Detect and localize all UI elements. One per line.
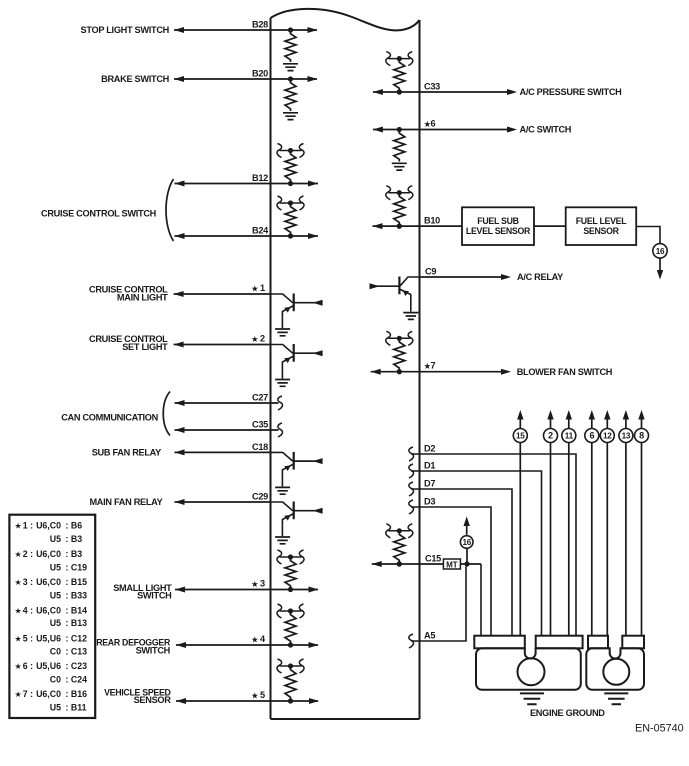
- connector circle 12: [600, 429, 614, 443]
- resistor R-B10 with break hooks: [388, 192, 410, 194]
- svg-text:16: 16: [656, 247, 665, 256]
- resistor R-B20 pull-down: [285, 81, 296, 112]
- wire *5 vehicle speed sensor: [176, 700, 318, 702]
- svg-text:FUEL LEVEL: FUEL LEVEL: [576, 216, 628, 226]
- svg-text:★: ★: [251, 284, 259, 294]
- svg-text:★: ★: [15, 578, 22, 587]
- svg-text:D1: D1: [424, 461, 435, 471]
- arrow right a/c switch: [507, 127, 517, 133]
- svg-text:: B11: : B11: [66, 702, 87, 712]
- svg-text:BLOWER FAN SWITCH: BLOWER FAN SWITCH: [517, 367, 613, 377]
- svg-text:SET LIGHT: SET LIGHT: [122, 342, 168, 352]
- svg-text:15: 15: [516, 432, 525, 441]
- svg-text:7: 7: [431, 361, 436, 371]
- wire connector 15: [519, 420, 521, 429]
- svg-text:STOP LIGHT SWITCH: STOP LIGHT SWITCH: [81, 25, 170, 35]
- svg-text:: B3: : B3: [66, 534, 83, 544]
- wire connector 8: [641, 420, 643, 429]
- svg-text:8: 8: [639, 431, 644, 441]
- MT option box: [443, 559, 460, 569]
- brace arc cruise control switch: [166, 179, 174, 241]
- svg-text:D3: D3: [424, 497, 435, 507]
- svg-text:U5: U5: [50, 534, 61, 544]
- wire MT to junction: [460, 563, 481, 565]
- svg-text:U6,C0: U6,C0: [36, 521, 61, 531]
- arrow left B10: [373, 223, 383, 229]
- svg-text:BRAKE SWITCH: BRAKE SWITCH: [101, 74, 170, 84]
- svg-text:A/C RELAY: A/C RELAY: [517, 272, 563, 282]
- arrow down connector 16: [657, 270, 663, 280]
- arrow left *1: [174, 291, 184, 297]
- svg-text:C33: C33: [424, 82, 440, 92]
- resistor R-B12 with break hooks: [280, 150, 302, 152]
- transistor Q1 cruise main light: [271, 294, 293, 303]
- svg-text:C29: C29: [252, 492, 268, 502]
- resistor R-*6 pull-down: [394, 131, 405, 162]
- engine ground right tab 1: [588, 636, 608, 649]
- svg-text:★: ★: [15, 662, 22, 671]
- svg-text:★: ★: [15, 522, 22, 531]
- transistor Q4 main fan relay: [271, 502, 293, 511]
- wire *7 blower fan switch: [371, 371, 508, 373]
- resistor R-C33 with break hooks: [388, 58, 410, 60]
- arrow left C29: [175, 499, 185, 505]
- engine ground left tab 2: [536, 636, 583, 649]
- node C33 junction: [397, 89, 402, 94]
- cross reference table box: [9, 515, 95, 718]
- svg-text:★: ★: [15, 634, 22, 643]
- svg-text:FUEL SUB: FUEL SUB: [477, 216, 518, 226]
- svg-text:C15: C15: [425, 554, 441, 564]
- svg-text:: C12: : C12: [66, 633, 88, 643]
- resistor R-*5 with break hooks: [280, 665, 302, 667]
- engine ground left bolt circle: [518, 658, 545, 685]
- arrow right *5: [309, 698, 319, 704]
- svg-text:SENSOR: SENSOR: [583, 226, 619, 236]
- arrow right *4: [309, 642, 319, 648]
- svg-text:C0: C0: [50, 675, 61, 685]
- ECU module outline top wavy edge: [271, 9, 420, 31]
- svg-text:: B33: : B33: [66, 591, 88, 601]
- arrow up connector 8: [638, 410, 644, 420]
- svg-text:MAIN FAN RELAY: MAIN FAN RELAY: [89, 497, 162, 507]
- svg-text:CRUISE CONTROL SWITCH: CRUISE CONTROL SWITCH: [41, 209, 157, 219]
- arrow up connector 12: [604, 410, 610, 420]
- svg-text:SWITCH: SWITCH: [137, 591, 172, 601]
- svg-text:6: 6: [589, 431, 594, 441]
- svg-text:C18: C18: [252, 442, 268, 452]
- arrow left *3: [175, 587, 185, 593]
- ECU module outline left bus wire: [270, 18, 272, 719]
- wire C15: [372, 563, 444, 565]
- wire C9 a/c relay: [420, 276, 509, 278]
- arrow left *4: [176, 642, 186, 648]
- node B28 junction: [288, 27, 293, 32]
- arrow up connector 13: [623, 410, 629, 420]
- arrow left B12: [175, 181, 185, 187]
- fuel level sensor box: [566, 207, 637, 245]
- wire B10 fuel sensors: [373, 225, 463, 227]
- svg-text:★: ★: [251, 635, 259, 645]
- svg-text:A/C SWITCH: A/C SWITCH: [520, 125, 572, 135]
- svg-text:★: ★: [251, 334, 259, 344]
- svg-text:U6,C0: U6,C0: [36, 577, 61, 587]
- svg-text:C9: C9: [425, 267, 436, 277]
- wire D3: [411, 507, 491, 637]
- svg-text:3 :: 3 :: [23, 577, 33, 587]
- svg-text:1 :: 1 :: [23, 521, 33, 531]
- wire C27 CAN: [175, 402, 279, 404]
- svg-text:: B6: : B6: [66, 521, 83, 531]
- svg-text:★: ★: [15, 550, 22, 559]
- svg-text:U6,C0: U6,C0: [36, 689, 61, 699]
- arrow left *7: [371, 369, 381, 375]
- arrow left *5: [176, 698, 186, 704]
- svg-text:: C24: : C24: [66, 675, 88, 685]
- svg-text:MAIN LIGHT: MAIN LIGHT: [117, 292, 168, 302]
- wire C33 a/c pressure switch: [373, 91, 514, 93]
- svg-text:U5,U6: U5,U6: [36, 661, 61, 671]
- svg-text:2 :: 2 :: [23, 549, 33, 559]
- arrow right blower fan switch: [501, 369, 511, 375]
- arrow right B24: [308, 233, 318, 239]
- svg-text:16: 16: [462, 538, 471, 547]
- arrow up connector 16: [464, 517, 470, 527]
- wire between fuel sensors: [534, 225, 566, 227]
- engine ground left block: [476, 648, 581, 690]
- arrow right B12: [308, 181, 318, 187]
- arrow left C35: [175, 427, 185, 433]
- ground symbol left engine ground: [520, 693, 544, 704]
- svg-text:U6,C0: U6,C0: [36, 605, 61, 615]
- brace arc CAN communication: [163, 392, 170, 436]
- wire connector 6: [591, 420, 593, 429]
- transistor Q2 cruise set light: [271, 345, 293, 354]
- svg-text:U5: U5: [50, 618, 61, 628]
- resistor R-*4 with break hooks: [280, 610, 302, 612]
- svg-text:: C23: : C23: [66, 661, 88, 671]
- ground at R-B28: [283, 64, 298, 71]
- svg-text:LEVEL SENSOR: LEVEL SENSOR: [466, 226, 531, 236]
- arrow left brake switch: [174, 76, 184, 82]
- ECU module outline bottom wire: [271, 718, 420, 720]
- node B20 junction: [288, 76, 293, 81]
- svg-text:: B3: : B3: [66, 549, 83, 559]
- arrow right a/c relay: [501, 274, 511, 280]
- arrow left C18: [175, 449, 185, 455]
- svg-text:A/C PRESSURE SWITCH: A/C PRESSURE SWITCH: [520, 87, 623, 97]
- resistor R-B28 pull-down: [285, 32, 296, 63]
- ECU module outline right bus wire: [419, 20, 421, 719]
- connector circle 16 fuel: [653, 244, 667, 258]
- wire B12 cruise control: [175, 183, 319, 185]
- svg-text:13: 13: [622, 432, 631, 441]
- svg-text:C27: C27: [252, 393, 268, 403]
- svg-text:2: 2: [548, 431, 553, 441]
- svg-text:7 :: 7 :: [23, 689, 33, 699]
- node C15 junction: [397, 561, 402, 566]
- wire fuel level sensor to connector 16: [636, 227, 660, 245]
- svg-text:ENGINE GROUND: ENGINE GROUND: [530, 708, 605, 718]
- wire A5: [411, 567, 466, 642]
- break mark at C35: [278, 423, 283, 437]
- arrow up connector 15: [517, 410, 523, 420]
- arrow left *2: [174, 342, 184, 348]
- svg-text:★: ★: [15, 690, 22, 699]
- svg-text:U5,U6: U5,U6: [36, 633, 61, 643]
- arrow right B28: [308, 27, 318, 33]
- wire B28 stop light switch: [174, 29, 317, 31]
- svg-text:★: ★: [15, 606, 22, 615]
- svg-text:CAN COMMUNICATION: CAN COMMUNICATION: [61, 412, 158, 422]
- wire *3 small light switch: [175, 589, 318, 591]
- svg-text:6: 6: [431, 119, 436, 129]
- wire connector 11: [568, 420, 570, 429]
- svg-text:★: ★: [424, 361, 432, 371]
- engine ground right tab 2: [622, 636, 644, 649]
- wire MT junction down to ground tab: [480, 564, 482, 637]
- break mark at D7: [409, 482, 414, 496]
- svg-text:U5: U5: [50, 591, 61, 601]
- break mark at D3: [409, 500, 414, 514]
- svg-text:U5: U5: [50, 563, 61, 573]
- svg-text:★: ★: [251, 691, 259, 701]
- node *7 junction: [397, 369, 402, 374]
- svg-text:SUB FAN RELAY: SUB FAN RELAY: [92, 448, 161, 458]
- ground at R-*6: [392, 163, 407, 170]
- engine ground right block: [586, 648, 644, 690]
- svg-text:4 :: 4 :: [23, 605, 33, 615]
- connector circle 11: [562, 429, 576, 443]
- connector circle 6: [585, 429, 599, 443]
- ground symbol right engine ground: [604, 693, 628, 704]
- arrow right a/c pressure switch: [507, 89, 517, 95]
- transistor Q3 sub fan relay: [271, 452, 293, 461]
- svg-text:C35: C35: [252, 420, 268, 430]
- svg-text:U5: U5: [50, 702, 61, 712]
- svg-text:: C19: : C19: [66, 563, 88, 573]
- resistor R-*3 with break hooks: [280, 556, 302, 558]
- connector circle 2: [544, 429, 558, 443]
- connector circle 8: [635, 429, 649, 443]
- connector circle 16 MT: [460, 536, 473, 549]
- arrow up connector 2: [547, 410, 553, 420]
- svg-text:MT: MT: [446, 560, 458, 569]
- engine ground right bolt circle: [603, 659, 629, 685]
- svg-text:5 :: 5 :: [23, 633, 33, 643]
- arrow left C27: [175, 400, 185, 406]
- wire C35 CAN: [175, 429, 279, 431]
- break mark at D2: [409, 447, 414, 461]
- wire below connector 16: [659, 258, 661, 271]
- wire above connector 16: [466, 525, 468, 535]
- wire *1 cruise main light: [174, 293, 271, 295]
- svg-text:12: 12: [603, 432, 612, 441]
- wire B20 brake switch: [174, 78, 317, 80]
- svg-text:A5: A5: [424, 631, 435, 641]
- svg-text:★: ★: [251, 579, 259, 589]
- node MT junction: [464, 561, 469, 566]
- arrow left C33: [373, 89, 383, 95]
- svg-text:B20: B20: [252, 69, 268, 79]
- svg-text:: C13: : C13: [66, 647, 88, 657]
- wire *6 a/c switch: [373, 129, 514, 131]
- svg-text:B24: B24: [252, 226, 269, 236]
- resistor R-C15 with break hooks: [388, 530, 410, 532]
- svg-text:3: 3: [260, 579, 265, 589]
- arrow left C15: [372, 561, 382, 567]
- arrow right *3: [309, 587, 319, 593]
- svg-text:B28: B28: [252, 20, 268, 30]
- svg-text:SENSOR: SENSOR: [134, 695, 172, 705]
- wire *4 rear defogger switch: [176, 644, 318, 646]
- arrow left B24: [175, 233, 185, 239]
- svg-text:★: ★: [424, 119, 432, 129]
- wire D1: [411, 471, 542, 637]
- svg-text:5: 5: [260, 690, 265, 700]
- connector circle 13: [619, 429, 633, 443]
- svg-text:C0: C0: [50, 647, 61, 657]
- wire connector 13: [625, 420, 627, 429]
- break mark at A5: [409, 634, 414, 648]
- arrow right B20: [308, 76, 318, 82]
- svg-text:D2: D2: [424, 444, 435, 454]
- node B10 junction: [397, 224, 402, 229]
- svg-text:11: 11: [565, 432, 574, 441]
- node *6 junction: [397, 127, 402, 132]
- svg-text:: B16: : B16: [66, 689, 88, 699]
- svg-text:U6,C0: U6,C0: [36, 549, 61, 559]
- svg-text:SWITCH: SWITCH: [136, 646, 171, 656]
- resistor R-*7 with break hooks: [388, 337, 410, 339]
- resistor R-B24 with break hooks: [280, 202, 302, 204]
- svg-text:D7: D7: [424, 479, 435, 489]
- wire C18 sub fan relay: [175, 451, 271, 453]
- svg-text:EN-05740: EN-05740: [635, 722, 684, 734]
- wire D7: [411, 489, 512, 637]
- svg-text:B10: B10: [424, 216, 440, 226]
- svg-text:2: 2: [260, 334, 265, 344]
- svg-text:6 :: 6 :: [23, 661, 33, 671]
- arrow left *6: [373, 127, 383, 133]
- wire B24 cruise control: [175, 235, 319, 237]
- arrow left stop light switch: [174, 27, 184, 33]
- svg-text:1: 1: [260, 283, 265, 293]
- svg-text:B12: B12: [252, 173, 268, 183]
- wire *2 cruise set light: [174, 344, 271, 346]
- break mark at D1: [409, 464, 414, 478]
- wire junction up to connector 16: [466, 549, 468, 562]
- transistor Q5 a/c relay: [400, 277, 419, 286]
- wire C29 main fan relay: [175, 501, 271, 503]
- connector circle 15: [513, 429, 527, 443]
- wire D2: [411, 454, 576, 637]
- fuel sub level sensor box: [462, 207, 534, 245]
- svg-text:: B13: : B13: [66, 618, 88, 628]
- wire connector 2: [550, 420, 552, 429]
- svg-text:: B15: : B15: [66, 577, 88, 587]
- engine ground left tab 1: [474, 636, 525, 649]
- arrow up connector 11: [566, 410, 572, 420]
- break mark at C27: [278, 396, 283, 410]
- arrow up connector 6: [589, 410, 595, 420]
- ground at R-B20: [283, 113, 298, 120]
- svg-text:: B14: : B14: [66, 605, 88, 615]
- wire connector 12: [606, 420, 608, 429]
